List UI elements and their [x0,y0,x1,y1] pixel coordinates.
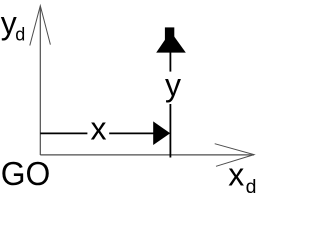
svg-text:y: y [165,67,181,103]
goal marker cone [156,27,186,52]
label yd [1,5,26,45]
label xd [228,157,256,199]
y-axis yd [30,6,51,155]
svg-text:x: x [91,110,107,146]
dimension line y [169,53,171,158]
label y [165,67,181,103]
svg-text:x: x [228,157,244,193]
x-axis xd [40,144,254,167]
svg-text:d: d [246,176,257,196]
svg-text:d: d [15,25,25,45]
dimension arrow x [40,121,170,145]
svg-text:GO: GO [1,155,51,192]
label x [91,110,107,146]
label GO [1,155,51,192]
